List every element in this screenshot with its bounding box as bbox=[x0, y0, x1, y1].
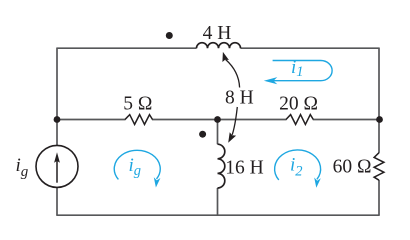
wire middle rail: left node to 5-ohm bbox=[57, 119, 126, 121]
polarity dot for 16H inductor bbox=[199, 131, 206, 138]
wire top rail right segment bbox=[241, 47, 380, 49]
mesh current i2 loop arrow bbox=[275, 150, 321, 180]
svg-text:4 H: 4 H bbox=[203, 23, 232, 44]
mesh current i2 arrowhead bbox=[314, 178, 321, 188]
mutual inductance arrow lower segment bbox=[232, 107, 237, 135]
node junction dot middle (middle rail / 16H branch) bbox=[214, 116, 221, 123]
wire top rail left segment bbox=[57, 47, 197, 49]
resistor R1 5-ohm zigzag bbox=[125, 115, 153, 125]
svg-text:i2: i2 bbox=[290, 154, 303, 179]
mesh current i1 arrowhead bbox=[264, 77, 278, 84]
inductor L1 4H coil bbox=[197, 43, 241, 49]
inductor L2 16H coil bbox=[218, 144, 225, 188]
mesh current ig loop arrow bbox=[114, 150, 160, 179]
wire middle rail: 20-ohm to right node bbox=[313, 119, 379, 121]
current source arrow head bbox=[54, 152, 60, 163]
current source circle bbox=[36, 145, 78, 187]
resistor R3 60-ohm zigzag bbox=[374, 153, 384, 181]
svg-text:ig: ig bbox=[16, 155, 29, 180]
wire right branch lower bbox=[378, 180, 380, 215]
mutual arrow head at 4H bbox=[222, 52, 229, 62]
mutual inductance arrow upper segment bbox=[226, 60, 240, 88]
resistor R2 20-ohm zigzag bbox=[286, 115, 313, 125]
svg-text:5 Ω: 5 Ω bbox=[123, 94, 152, 115]
node junction dot left (middle rail / left branch) bbox=[54, 116, 61, 123]
svg-text:16 H: 16 H bbox=[225, 158, 263, 179]
mesh current ig arrowhead bbox=[154, 177, 161, 187]
mesh current i1 loop arrow bbox=[267, 61, 333, 81]
wire left branch upper (top rail to source) bbox=[56, 48, 58, 146]
wire middle rail: 5-ohm to 20-ohm bbox=[152, 119, 287, 121]
svg-text:8 H: 8 H bbox=[225, 87, 254, 108]
wire left branch lower (source to bottom rail) bbox=[56, 187, 58, 215]
polarity dot for 4H inductor bbox=[166, 32, 173, 39]
current source arrow shaft bbox=[56, 160, 58, 183]
wire bottom rail bbox=[56, 214, 379, 216]
wire right branch upper bbox=[378, 48, 380, 153]
wire middle branch lower (16H to bottom rail) bbox=[217, 188, 219, 215]
wire middle branch upper (node to 16H) bbox=[217, 120, 219, 145]
svg-text:20 Ω: 20 Ω bbox=[279, 94, 318, 115]
mutual arrow head at 16H bbox=[228, 132, 236, 143]
svg-text:ig: ig bbox=[129, 155, 142, 179]
svg-text:60 Ω: 60 Ω bbox=[333, 157, 372, 178]
node junction dot right (middle rail / right branch) bbox=[376, 116, 383, 123]
